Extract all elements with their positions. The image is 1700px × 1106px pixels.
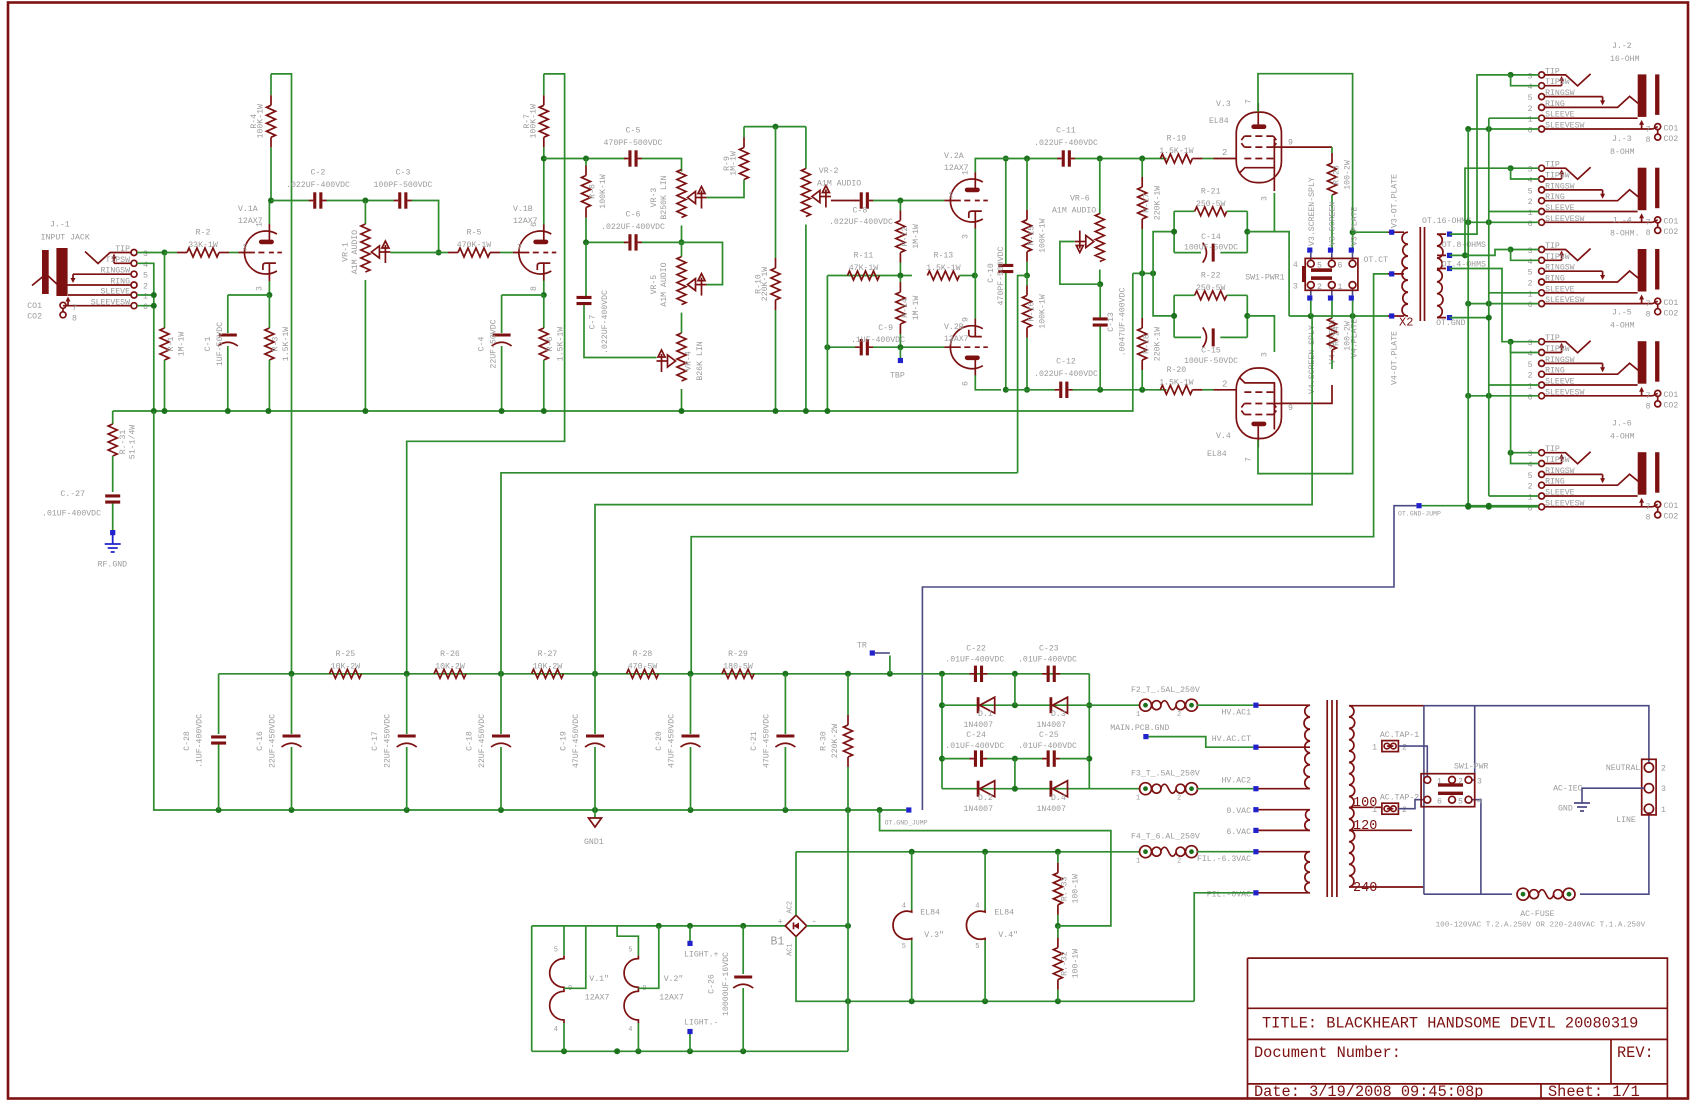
- X1 primary leads: [1259, 705, 1305, 893]
- svg-text:100UF-50VDC: 100UF-50VDC: [1184, 357, 1238, 366]
- svg-text:J.-5: J.-5: [1612, 309, 1632, 318]
- svg-text:6: 6: [1338, 262, 1343, 271]
- svg-text:OT.16-OHMS: OT.16-OHMS: [1422, 217, 1471, 226]
- svg-text:1: 1: [1372, 806, 1377, 815]
- resistor R-13: [926, 275, 928, 277]
- ground RF.GND symbol: [105, 535, 121, 552]
- svg-text:B1: B1: [771, 936, 785, 949]
- svg-text:TIPSW: TIPSW: [1545, 172, 1570, 181]
- svg-text:5: 5: [628, 947, 632, 955]
- svg-text:5: 5: [975, 943, 979, 951]
- resistor R-2: [165, 252, 178, 254]
- tube V.1B 12AX7 triode: [519, 231, 551, 274]
- svg-text:8: 8: [72, 315, 77, 324]
- svg-text:R-30: R-30: [819, 731, 828, 751]
- wire B1 right output: [807, 925, 849, 927]
- capacitor C-13: [1099, 284, 1101, 317]
- capacitor C-18: [500, 674, 502, 734]
- svg-text:AC.TAP-2: AC.TAP-2: [1380, 794, 1419, 803]
- svg-text:.022UF-400VDC: .022UF-400VDC: [286, 181, 350, 190]
- svg-text:CO2: CO2: [1664, 135, 1679, 144]
- svg-text:B250K LIN: B250K LIN: [660, 175, 669, 219]
- svg-text:C-11: C-11: [1056, 127, 1076, 136]
- svg-text:+: +: [778, 918, 783, 928]
- svg-text:Date: 3/19/2008 09:45:08p: Date: 3/19/2008 09:45:08p: [1254, 1083, 1484, 1101]
- svg-text:1.5K-1W: 1.5K-1W: [926, 264, 960, 273]
- resistor R-27: [532, 669, 564, 678]
- svg-text:TBP: TBP: [890, 372, 905, 381]
- svg-text:CO2: CO2: [1664, 402, 1679, 411]
- svg-text:8-OHM.: 8-OHM.: [1610, 230, 1639, 239]
- wire V.2B plate down: [975, 375, 1001, 390]
- svg-text:OT.8-OHMS: OT.8-OHMS: [1442, 241, 1486, 250]
- resistor R-4: [270, 74, 272, 95]
- fuse F3: [1089, 788, 1140, 790]
- wire VR-6 wiper loop: [1060, 242, 1100, 285]
- svg-text:3: 3: [1477, 778, 1482, 787]
- svg-text:TIPSW: TIPSW: [105, 256, 130, 265]
- svg-text:SLEEVE: SLEEVE: [1545, 285, 1575, 294]
- heater V.2": [617, 926, 638, 956]
- svg-text:VR-2: VR-2: [819, 167, 839, 176]
- capacitor C-27: [105, 494, 120, 497]
- capacitor C-25: [987, 758, 1043, 760]
- svg-text:TIPSW: TIPSW: [1545, 253, 1570, 262]
- wire V.3 grid: [1214, 158, 1237, 160]
- svg-text:C-4: C-4: [478, 337, 487, 352]
- svg-text:5: 5: [143, 272, 148, 281]
- resistor R-19: [1202, 158, 1213, 160]
- svg-text:3: 3: [1260, 196, 1269, 201]
- wire V.4 plate loop to OT: [1258, 316, 1353, 474]
- svg-text:SLEEVESW: SLEEVESW: [91, 298, 130, 307]
- flag V4.PLATE: [1349, 295, 1354, 300]
- svg-text:J.-6: J.-6: [1612, 420, 1632, 429]
- svg-text:100K-1W: 100K-1W: [257, 104, 266, 138]
- ground AC earth: [1582, 788, 1644, 803]
- wire V.2 supply line: [501, 473, 1018, 674]
- svg-text:CO2: CO2: [27, 313, 42, 322]
- svg-text:.022UF-400VDC: .022UF-400VDC: [1034, 370, 1098, 379]
- wire VR-5 wiper loop: [682, 242, 723, 284]
- resistor R-33: [1057, 852, 1059, 863]
- svg-text:100-120VAC T.2.A.250V OR 220-2: 100-120VAC T.2.A.250V OR 220-240VAC T.1.…: [1436, 922, 1646, 930]
- wire 4-ohm chain J.-6: [1510, 342, 1512, 453]
- svg-text:16-OHM: 16-OHM: [1610, 55, 1640, 64]
- X1 left winding: [1304, 705, 1310, 789]
- svg-text:Document Number:: Document Number:: [1254, 1044, 1401, 1062]
- svg-text:CO1: CO1: [1664, 391, 1679, 400]
- svg-text:FIL.-6.3VAC: FIL.-6.3VAC: [1197, 855, 1251, 864]
- wire mid ground row: [1133, 272, 1153, 274]
- wire 8-ohm feed J.-4: [1465, 250, 1511, 256]
- svg-text:R-17: R-17: [1143, 193, 1152, 213]
- svg-text:100K-1W: 100K-1W: [599, 174, 608, 208]
- svg-text:.01UF-400VDC: .01UF-400VDC: [1018, 742, 1077, 751]
- heater V.4" EL84: [984, 852, 986, 910]
- wire V.1B cathode: [543, 281, 545, 296]
- svg-text:10K-2W: 10K-2W: [331, 662, 361, 671]
- wire heater bottom rail: [532, 1050, 848, 1052]
- svg-text:LIGHT.-: LIGHT.-: [684, 1019, 718, 1028]
- jumper AC.TAP-2: [1382, 803, 1399, 814]
- svg-text:1: 1: [1528, 494, 1533, 503]
- svg-text:V3.SCREEN: V3.SCREEN: [1329, 202, 1338, 246]
- resistor R-23: [1331, 147, 1333, 153]
- svg-text:RINGSW: RINGSW: [1545, 89, 1575, 98]
- svg-text:2: 2: [1177, 711, 1181, 719]
- wire R-11/R-13 row: [827, 275, 912, 277]
- svg-text:100-2W: 100-2W: [1343, 160, 1352, 190]
- svg-text:2: 2: [1528, 198, 1533, 207]
- svg-text:2: 2: [1222, 380, 1227, 390]
- svg-text:R-27: R-27: [538, 650, 558, 659]
- capacitor C-26: [742, 926, 744, 974]
- flag OT.GND.JUMP (psu): [906, 807, 911, 812]
- svg-text:22UF-450VDC: 22UF-450VDC: [384, 714, 393, 768]
- svg-text:V4-OT.PLATE: V4-OT.PLATE: [1391, 331, 1400, 385]
- svg-text:TIP: TIP: [1545, 242, 1560, 251]
- svg-text:2: 2: [1402, 744, 1407, 753]
- svg-text:5: 5: [1528, 269, 1533, 278]
- flag V4.SCREEN: [1328, 295, 1333, 300]
- svg-text:470PF-500VDC: 470PF-500VDC: [604, 139, 663, 148]
- svg-text:1M-1W: 1M-1W: [177, 332, 186, 357]
- svg-text:R-12: R-12: [901, 227, 910, 247]
- svg-text:J.-2: J.-2: [1612, 42, 1632, 51]
- svg-text:OT.CT: OT.CT: [1364, 256, 1389, 265]
- svg-text:.0047UF-400VDC: .0047UF-400VDC: [1119, 288, 1128, 357]
- svg-text:C-17: C-17: [371, 731, 380, 751]
- svg-text:1M-1W: 1M-1W: [912, 224, 921, 249]
- svg-text:7: 7: [517, 244, 522, 253]
- svg-text:CO1: CO1: [1664, 299, 1679, 308]
- wire rectifier right bus: [1088, 674, 1090, 789]
- wire V.2A cathode down: [974, 229, 976, 276]
- svg-text:100-1W: 100-1W: [1071, 874, 1080, 904]
- svg-text:4: 4: [1528, 350, 1533, 359]
- wire J.-4 TIP link: [1511, 249, 1539, 251]
- svg-text:4: 4: [143, 261, 148, 270]
- wire 16-ohm feed: [1450, 75, 1511, 234]
- jumper AC.TAP-1: [1382, 741, 1399, 752]
- svg-text:AC1: AC1: [787, 943, 795, 956]
- svg-text:EL84: EL84: [920, 909, 940, 918]
- connector J.-2 output jack: [1539, 72, 1545, 78]
- wire OT.GND-JUMP navy: [922, 506, 1416, 810]
- wire C-5 to VR-3: [642, 159, 682, 172]
- svg-text:9: 9: [1288, 404, 1293, 413]
- wire J.-3 SLEEVESW link: [1468, 221, 1538, 223]
- svg-text:1.5K-1W: 1.5K-1W: [557, 327, 566, 361]
- X1 right winding: [1349, 706, 1355, 887]
- svg-text:R-2: R-2: [196, 229, 211, 238]
- svg-text:8: 8: [1646, 136, 1651, 145]
- svg-text:V.3: V.3: [1216, 100, 1231, 109]
- svg-text:C-14: C-14: [1201, 233, 1221, 242]
- potentiometer VR-5: [681, 242, 683, 256]
- svg-text:7: 7: [949, 339, 954, 348]
- svg-text:VR-6: VR-6: [1070, 195, 1090, 204]
- svg-text:C-22: C-22: [966, 645, 986, 654]
- svg-text:470-5W: 470-5W: [628, 662, 658, 671]
- flag V3.SCREEN: [1328, 248, 1333, 253]
- capacitor C-9: [855, 346, 873, 348]
- X1 tap leads: [1349, 706, 1424, 887]
- resistor R-3: [268, 295, 270, 328]
- svg-text:TR: TR: [857, 642, 867, 651]
- svg-text:C-15: C-15: [1201, 347, 1221, 356]
- svg-text:C-25: C-25: [1039, 731, 1059, 740]
- svg-text:6: 6: [530, 222, 539, 227]
- svg-text:10000UF-16VDC: 10000UF-16VDC: [722, 952, 731, 1016]
- resistor R-14: [899, 276, 901, 283]
- svg-text:R.-33: R.-33: [1061, 876, 1070, 901]
- svg-text:SLEEVESW: SLEEVESW: [1545, 296, 1584, 305]
- svg-text:3: 3: [1293, 283, 1298, 292]
- svg-text:3: 3: [1661, 785, 1666, 794]
- svg-text:X2: X2: [1399, 316, 1413, 330]
- capacitor C-11: [1057, 158, 1075, 160]
- resistor R-21 / capacitor C-14 loop: [1173, 211, 1175, 252]
- wire J.-3 SLEEVE link: [1489, 211, 1539, 213]
- svg-text:V.2A: V.2A: [944, 152, 964, 161]
- wire D1/D3 row: [942, 704, 1089, 706]
- wire V.1" tap: [564, 926, 586, 988]
- svg-text:OT.GND: OT.GND: [1436, 319, 1466, 328]
- svg-text:GND: GND: [1558, 805, 1573, 814]
- svg-text:RF.GND: RF.GND: [98, 561, 128, 570]
- svg-text:A1M AUDIO: A1M AUDIO: [817, 180, 861, 189]
- wire C-9 to V.2B grid: [873, 346, 944, 348]
- svg-text:22UF-50VDC: 22UF-50VDC: [490, 319, 499, 368]
- svg-text:7: 7: [1646, 300, 1651, 309]
- X1 pins: [1253, 703, 1258, 708]
- svg-text:100PF-500VDC: 100PF-500VDC: [374, 181, 433, 190]
- wire V.3 plate to OT pin: [1353, 231, 1388, 233]
- wire FIL-6.3VAC line: [796, 851, 1140, 853]
- svg-text:7: 7: [1646, 503, 1651, 512]
- tube V.3 EL84: [1236, 112, 1281, 183]
- svg-text:TIP: TIP: [1545, 67, 1560, 76]
- svg-text:1: 1: [1136, 711, 1140, 719]
- resistor R-11: [848, 271, 880, 280]
- svg-text:C-12: C-12: [1056, 358, 1076, 367]
- svg-text:D.2: D.2: [978, 794, 993, 803]
- svg-text:C-18: C-18: [466, 731, 475, 751]
- capacitor C-21: [784, 674, 786, 734]
- resistor R-1: [164, 253, 166, 329]
- svg-text:51-1/4W: 51-1/4W: [127, 425, 137, 459]
- heater V.1": [563, 926, 565, 956]
- svg-text:3: 3: [1528, 450, 1533, 459]
- wire J.-3 TIP link: [1511, 167, 1539, 169]
- node R-9/R-10 top: [744, 126, 806, 128]
- svg-text:5: 5: [1458, 797, 1463, 806]
- svg-text:1: 1: [1372, 744, 1377, 753]
- svg-text:SLEEVE: SLEEVE: [1545, 111, 1575, 120]
- svg-text:RING: RING: [1545, 478, 1565, 487]
- svg-text:MAIN.PCB.GND: MAIN.PCB.GND: [1110, 724, 1169, 733]
- svg-text:R-21: R-21: [1201, 187, 1221, 196]
- svg-text:SLEEVE: SLEEVE: [1545, 378, 1575, 387]
- svg-text:TIP: TIP: [1545, 161, 1560, 170]
- svg-text:CO2: CO2: [1664, 310, 1679, 319]
- svg-text:RING: RING: [1545, 367, 1565, 376]
- tube V.1A 12AX7 triode: [244, 231, 276, 274]
- wire D2/D4 row: [942, 788, 1089, 790]
- svg-text:2: 2: [1458, 778, 1463, 787]
- svg-text:CO2: CO2: [1664, 228, 1679, 237]
- svg-text:8: 8: [1646, 229, 1651, 238]
- svg-text:1: 1: [1136, 858, 1140, 866]
- fuse AC-FUSE: [1517, 888, 1529, 900]
- svg-text:AC-FUSE: AC-FUSE: [1520, 910, 1554, 919]
- wire C-9 row: [827, 346, 856, 348]
- svg-text:4: 4: [975, 903, 979, 911]
- svg-text:V.1B: V.1B: [513, 205, 533, 214]
- svg-text:3: 3: [1260, 352, 1269, 357]
- svg-text:3: 3: [143, 250, 148, 259]
- svg-text:R-18: R-18: [1143, 334, 1152, 354]
- svg-text:C-5: C-5: [626, 127, 641, 136]
- capacitor C-20: [690, 674, 692, 734]
- svg-text:1: 1: [1661, 806, 1666, 815]
- svg-text:C-2: C-2: [311, 169, 326, 178]
- svg-text:C-21: C-21: [750, 731, 759, 751]
- resistor R-28: [627, 669, 659, 678]
- svg-text:V.2B: V.2B: [944, 323, 964, 332]
- svg-text:47K-1W: 47K-1W: [849, 264, 879, 273]
- svg-text:1M-1W: 1M-1W: [730, 151, 739, 176]
- svg-text:CO2: CO2: [1664, 513, 1679, 522]
- svg-text:F2_T_.5AL_250V: F2_T_.5AL_250V: [1131, 686, 1200, 695]
- wire OT.GND feed: [1450, 317, 1489, 319]
- svg-text:47UF-450VDC: 47UF-450VDC: [668, 714, 677, 768]
- fuse F4: [1140, 846, 1152, 858]
- svg-text:TIP: TIP: [1545, 445, 1560, 454]
- svg-text:470PF-500VDC: 470PF-500VDC: [997, 246, 1006, 305]
- svg-text:2: 2: [949, 192, 954, 201]
- svg-text:F3_T_.5AL_250V: F3_T_.5AL_250V: [1131, 769, 1200, 778]
- svg-text:C-26: C-26: [708, 974, 717, 994]
- svg-text:C-6: C-6: [626, 211, 641, 220]
- tube V.2A 12AX7 triode: [950, 179, 982, 222]
- svg-text:CO1: CO1: [27, 302, 42, 311]
- svg-text:AC-IEC: AC-IEC: [1553, 785, 1583, 794]
- diode D.2: [977, 781, 980, 797]
- svg-text:240: 240: [1353, 881, 1377, 896]
- capacitor C-28: [218, 674, 220, 734]
- svg-text:R-5: R-5: [467, 229, 482, 238]
- resistor R-22 / capacitor C-15 loop: [1173, 295, 1175, 337]
- svg-text:8: 8: [1646, 514, 1651, 523]
- wire VR-3 wiper to R-9: [707, 180, 745, 198]
- svg-text:3: 3: [1528, 247, 1533, 256]
- svg-text:1: 1: [1528, 209, 1533, 218]
- connector J.-6 output jack: [1539, 450, 1545, 456]
- svg-text:CO1: CO1: [1664, 124, 1679, 133]
- svg-text:D.1: D.1: [978, 710, 993, 719]
- wire ground drop to heater: [847, 810, 849, 1051]
- svg-text:LIGHT.+: LIGHT.+: [684, 951, 718, 960]
- svg-text:.01UF-400VDC: .01UF-400VDC: [945, 656, 1004, 665]
- svg-text:7: 7: [1646, 392, 1651, 401]
- svg-text:RINGSW: RINGSW: [1545, 264, 1575, 273]
- diode D.4: [1050, 781, 1053, 797]
- resistor R-26: [434, 669, 466, 678]
- svg-text:4: 4: [628, 1026, 632, 1034]
- wire FIL-0VAC return: [1194, 893, 1253, 1002]
- svg-text:100K-1W: 100K-1W: [529, 104, 538, 138]
- capacitor C-19: [594, 674, 596, 734]
- svg-text:2: 2: [243, 244, 248, 253]
- flag TR: [889, 656, 891, 674]
- wire J.-4 SLEEVESW link: [1468, 303, 1538, 305]
- svg-text:SLEEVE: SLEEVE: [1545, 204, 1575, 213]
- svg-text:1N4007: 1N4007: [1037, 805, 1067, 814]
- potentiometer VR-6: [1099, 159, 1101, 215]
- svg-text:6.VAC: 6.VAC: [1226, 828, 1251, 837]
- svg-text:AC.TAP-1: AC.TAP-1: [1380, 731, 1419, 740]
- svg-text:33K-1W: 33K-1W: [188, 241, 218, 250]
- resistor R-6: [543, 295, 545, 328]
- svg-text:R-15: R-15: [1028, 226, 1037, 246]
- svg-text:R-28: R-28: [633, 650, 653, 659]
- svg-text:D.4: D.4: [1051, 794, 1066, 803]
- svg-text:3: 3: [962, 234, 971, 239]
- svg-text:5: 5: [1528, 361, 1533, 370]
- resistor R-29: [722, 669, 754, 678]
- flag LIGHT.+: [689, 926, 691, 941]
- potentiometer VR-4: [681, 313, 683, 333]
- wire loop to V.3 cathode: [1247, 193, 1274, 232]
- resistor R-22: [1195, 291, 1227, 300]
- wire V.3 screen via R-23: [1282, 146, 1333, 148]
- svg-text:1: 1: [1528, 116, 1533, 125]
- svg-text:REV:: REV:: [1617, 1044, 1654, 1062]
- svg-text:8: 8: [1646, 403, 1651, 412]
- svg-text:RINGSW: RINGSW: [1545, 356, 1575, 365]
- connector J.-4 output jack: [1539, 247, 1545, 253]
- svg-text:1N4007: 1N4007: [964, 721, 994, 730]
- capacitor C-15: [1203, 327, 1207, 347]
- svg-text:3: 3: [1528, 72, 1533, 81]
- svg-text:SLEEVESW: SLEEVESW: [1545, 215, 1584, 224]
- capacitor C-8: [855, 200, 873, 202]
- wire heater left loop: [531, 926, 533, 1051]
- svg-text:1N4007: 1N4007: [964, 805, 994, 814]
- svg-text:V.4": V.4": [998, 930, 1018, 940]
- wire 8-ohm feed: [1450, 168, 1511, 255]
- capacitor C-14: [1203, 243, 1207, 263]
- svg-text:RINGSW: RINGSW: [1545, 182, 1575, 191]
- svg-text:2: 2: [1528, 105, 1533, 114]
- svg-text:C-28: C-28: [183, 731, 192, 751]
- wire C-3 to R-5 node: [412, 201, 439, 253]
- svg-text:V3-OT.PLATE: V3-OT.PLATE: [1391, 174, 1400, 228]
- flag LIGHT.-: [689, 1034, 691, 1051]
- switch SW1-PWR1: [1305, 258, 1358, 290]
- svg-text:220K-2W: 220K-2W: [831, 724, 840, 758]
- svg-text:V3.PLATE: V3.PLATE: [1350, 207, 1359, 246]
- svg-text:TIPSW: TIPSW: [1545, 456, 1570, 465]
- svg-text:3: 3: [1528, 339, 1533, 348]
- svg-text:250-5W: 250-5W: [1196, 200, 1226, 209]
- svg-text:2: 2: [1222, 148, 1227, 158]
- svg-text:HV.AC.CT: HV.AC.CT: [1212, 735, 1251, 744]
- svg-text:V3.SCREEN-SPLY: V3.SCREEN-SPLY: [1308, 177, 1317, 246]
